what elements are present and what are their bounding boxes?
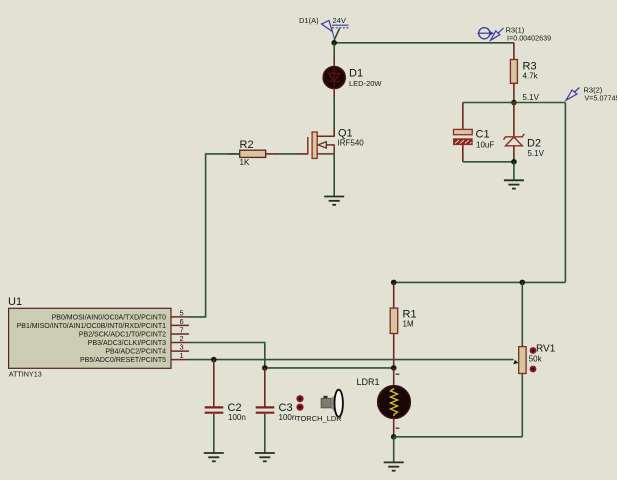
svg-text:PB1/MISO/INT0/AIN1/OC0B/INT0/R: PB1/MISO/INT0/AIN1/OC0B/INT0/RXD/PCINT1 bbox=[17, 323, 166, 330]
voltage probe D1(A) bbox=[299, 16, 334, 38]
svg-text:PB0/MOSI/AIN0/OC0A/TXD/PCINT0: PB0/MOSI/AIN0/OC0A/TXD/PCINT0 bbox=[52, 314, 166, 321]
svg-text:10uF: 10uF bbox=[476, 141, 494, 150]
svg-text:U1: U1 bbox=[8, 296, 22, 308]
indicator dots RV1 bbox=[530, 347, 537, 372]
node junction R1 bottom bbox=[391, 365, 397, 371]
potentiometer RV1 bbox=[513, 282, 556, 436]
svg-text:5.1V: 5.1V bbox=[523, 93, 540, 102]
ground (C2) bbox=[204, 453, 224, 461]
svg-text:50k: 50k bbox=[529, 354, 543, 363]
wire R2 to gate bbox=[276, 153, 298, 155]
svg-text:ATTINY13: ATTINY13 bbox=[9, 370, 42, 379]
U1 pin labels bbox=[17, 314, 166, 364]
node 5.1V bbox=[511, 93, 540, 105]
svg-text:R2: R2 bbox=[240, 139, 254, 151]
svg-text:D1: D1 bbox=[349, 68, 363, 80]
svg-text:100n: 100n bbox=[279, 413, 297, 422]
voltage probe R3(2) bbox=[566, 86, 617, 103]
svg-text:PB5/ADC0/RESET/PCINT5: PB5/ADC0/RESET/PCINT5 bbox=[80, 357, 166, 364]
svg-text:V=5.07745: V=5.07745 bbox=[585, 93, 617, 102]
ground (D2/C1) bbox=[504, 162, 524, 189]
wire R2 left to U1 pin 5 bbox=[189, 154, 240, 317]
wire to D1 anode bbox=[333, 43, 335, 58]
wire Q1 source to ground bbox=[333, 154, 335, 196]
svg-text:1: 1 bbox=[180, 351, 184, 360]
svg-text:PB2/SCK/ADC1/T0/PCINT2: PB2/SCK/ADC1/T0/PCINT2 bbox=[79, 331, 166, 338]
svg-text:PB3/ADC3/CLKI/PCINT3: PB3/ADC3/CLKI/PCINT3 bbox=[88, 340, 166, 347]
capacitor C2 bbox=[205, 360, 246, 453]
ground (LDR1) bbox=[384, 437, 404, 471]
wire top rail bbox=[334, 42, 514, 44]
node junction R1 top bbox=[391, 280, 397, 286]
LED D1 bbox=[323, 67, 382, 89]
svg-text:1M: 1M bbox=[403, 320, 414, 329]
resistor R2 bbox=[228, 139, 277, 167]
power terminal 24V bbox=[332, 16, 349, 43]
wire U1 pin1 net to RV1 wiper bbox=[189, 359, 514, 361]
svg-text:IRF540: IRF540 bbox=[338, 139, 365, 148]
svg-text:1K: 1K bbox=[240, 158, 250, 167]
svg-text:4.7k: 4.7k bbox=[523, 72, 539, 81]
pin D1 cathode bbox=[333, 88, 335, 98]
svg-text:I=0.00402639: I=0.00402639 bbox=[507, 34, 551, 43]
svg-text:PB4/ADC2/PCINT4: PB4/ADC2/PCINT4 bbox=[105, 349, 166, 356]
svg-text:LED-20W: LED-20W bbox=[349, 79, 382, 88]
U1 pin numbers bbox=[180, 308, 184, 360]
capacitor C1 bbox=[454, 103, 495, 162]
speaker icon bbox=[321, 390, 343, 417]
capacitor C3 bbox=[256, 368, 297, 453]
zener diode D2 bbox=[504, 103, 545, 162]
node junction C2 top bbox=[211, 357, 217, 363]
ground (C3) bbox=[255, 453, 275, 461]
node junction bbox=[511, 159, 517, 165]
wire C1/D2 bottom bbox=[463, 161, 514, 163]
pin Q1 drain bbox=[333, 127, 335, 137]
node junction RV1 top bbox=[520, 280, 526, 286]
ground (Q1) bbox=[324, 197, 344, 205]
pin D1 anode bbox=[333, 56, 335, 67]
indicator dots C3 bbox=[296, 395, 303, 411]
wire U1 pin2 net bbox=[189, 343, 394, 368]
U1 pin stubs bbox=[171, 317, 189, 360]
pin Q1 gate bbox=[297, 153, 308, 155]
svg-text:D1(A): D1(A) bbox=[299, 16, 319, 25]
wire lower rail bbox=[394, 281, 566, 283]
U1 box bbox=[8, 296, 171, 379]
transistor Q1 MOSFET bbox=[308, 128, 364, 159]
svg-text:TORCH_LDR: TORCH_LDR bbox=[296, 414, 342, 423]
node junction C3 top bbox=[262, 365, 268, 371]
svg-text:24V: 24V bbox=[333, 16, 346, 25]
wire LDR bottom to RV1 bottom bbox=[394, 436, 523, 438]
node junction top bbox=[331, 40, 337, 46]
wire mid rail bbox=[463, 102, 566, 104]
wire D1 to Q1 bbox=[333, 97, 335, 128]
svg-text:LDR1: LDR1 bbox=[357, 377, 380, 387]
svg-text:RV1: RV1 bbox=[536, 344, 556, 355]
resistor R1 bbox=[390, 282, 416, 368]
svg-text:5.1V: 5.1V bbox=[528, 149, 545, 158]
svg-text:100n: 100n bbox=[228, 413, 246, 422]
svg-text:C1: C1 bbox=[476, 129, 490, 141]
LDR1 bbox=[357, 368, 411, 437]
resistor R3 bbox=[510, 43, 538, 103]
node junction LDR bottom bbox=[391, 434, 397, 440]
svg-text:D2: D2 bbox=[527, 138, 541, 150]
wire right vertical bbox=[564, 103, 566, 283]
current probe R3(1) bbox=[478, 26, 552, 43]
